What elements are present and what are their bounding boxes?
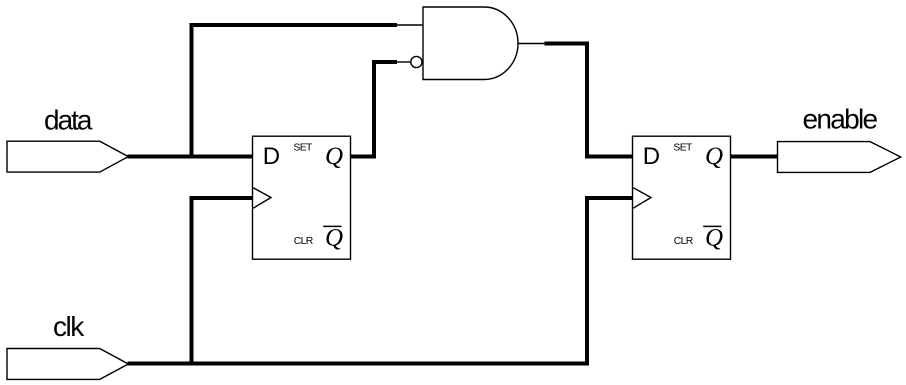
svg-text:Q: Q — [705, 224, 723, 251]
svg-text:SET: SET — [293, 143, 313, 154]
svg-text:enable: enable — [803, 103, 878, 134]
svg-text:Q: Q — [325, 143, 343, 170]
svg-text:CLR: CLR — [294, 236, 314, 247]
svg-text:CLR: CLR — [674, 236, 694, 247]
svg-text:Q: Q — [705, 143, 723, 170]
svg-text:SET: SET — [673, 143, 693, 154]
svg-text:data: data — [44, 105, 93, 136]
svg-text:D: D — [643, 143, 660, 170]
svg-text:clk: clk — [53, 311, 85, 342]
svg-text:Q: Q — [325, 224, 343, 251]
svg-text:D: D — [263, 143, 280, 170]
